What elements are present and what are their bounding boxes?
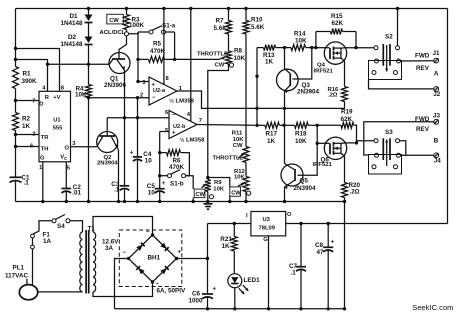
svg-text:O: O: [65, 145, 70, 151]
svg-text:C6: C6: [192, 291, 201, 298]
svg-text:CW: CW: [231, 191, 241, 197]
svg-text:A: A: [434, 70, 439, 77]
svg-text:+: +: [162, 181, 166, 187]
svg-text:S4: S4: [57, 223, 65, 230]
svg-text:½ LM358: ½ LM358: [169, 97, 195, 104]
svg-text:G: G: [263, 237, 268, 243]
svg-text:ACL/DCL: ACL/DCL: [100, 30, 126, 36]
svg-text:R17: R17: [266, 131, 278, 138]
svg-text:5.6K: 5.6K: [214, 25, 228, 32]
svg-text:~: ~: [156, 282, 160, 288]
svg-text:R1: R1: [23, 71, 32, 78]
svg-text:O: O: [287, 212, 292, 218]
svg-text:R9: R9: [214, 180, 222, 186]
svg-text:REV: REV: [416, 65, 430, 72]
svg-text:1A: 1A: [43, 238, 52, 245]
svg-text:390K: 390K: [22, 78, 38, 85]
svg-text:BH1: BH1: [148, 254, 161, 261]
svg-text:IRF521: IRF521: [314, 68, 334, 74]
svg-text:470K: 470K: [150, 48, 166, 55]
svg-text:CW: CW: [233, 143, 243, 149]
svg-text:G: G: [40, 156, 45, 162]
svg-text:LED1: LED1: [244, 277, 261, 284]
svg-text:2N3906: 2N3906: [104, 82, 127, 89]
svg-text:−: −: [152, 95, 156, 101]
svg-text:VC: VC: [60, 155, 67, 162]
svg-text:CW: CW: [195, 192, 205, 198]
svg-text:PL1: PL1: [13, 265, 25, 272]
svg-text:J4: J4: [434, 157, 442, 164]
svg-text:2N3904: 2N3904: [97, 160, 118, 166]
svg-text:Q5: Q5: [300, 178, 309, 185]
svg-text:D1: D1: [70, 13, 79, 20]
svg-text:78L09: 78L09: [259, 226, 276, 232]
svg-text:J2: J2: [433, 91, 441, 98]
svg-text:U2-a: U2-a: [153, 88, 166, 94]
svg-text:THROTTLE: THROTTLE: [213, 155, 244, 161]
svg-text:TR: TR: [41, 135, 50, 141]
svg-text:S1-b: S1-b: [170, 180, 184, 187]
svg-text:S3: S3: [385, 129, 393, 136]
svg-text:100K: 100K: [129, 22, 145, 29]
svg-text:2: 2: [140, 93, 143, 99]
svg-text:R7: R7: [216, 18, 225, 25]
svg-text:.1: .1: [114, 186, 120, 193]
svg-text:R10: R10: [251, 17, 263, 24]
svg-text:½ LM358: ½ LM358: [180, 137, 206, 144]
svg-text:10K: 10K: [234, 55, 246, 62]
svg-text:2N3904: 2N3904: [294, 185, 317, 192]
svg-text:10: 10: [148, 190, 156, 197]
svg-text:1N4148: 1N4148: [61, 41, 84, 48]
svg-text:D2: D2: [68, 34, 77, 41]
svg-text:2N3904: 2N3904: [297, 88, 320, 95]
svg-text:TH: TH: [41, 146, 49, 152]
svg-text:SeekIC.com: SeekIC.com: [412, 303, 453, 312]
svg-text:5.6K: 5.6K: [251, 24, 265, 31]
svg-text:S1-a: S1-a: [162, 22, 176, 29]
svg-text:117VAC: 117VAC: [5, 273, 28, 280]
svg-text:470K: 470K: [169, 164, 185, 171]
svg-text:R15: R15: [331, 13, 343, 20]
svg-text:10K: 10K: [234, 174, 246, 180]
svg-text:IRF521: IRF521: [313, 162, 333, 168]
svg-text:+: +: [178, 250, 182, 256]
svg-text:1K: 1K: [22, 123, 31, 130]
svg-text:47: 47: [317, 249, 325, 256]
svg-text:J1: J1: [433, 50, 441, 57]
svg-text:1K: 1K: [265, 59, 274, 66]
svg-text:THROTTLE: THROTTLE: [197, 52, 228, 58]
svg-text:62K: 62K: [332, 20, 344, 27]
svg-text:B: B: [434, 138, 439, 145]
svg-text:1K: 1K: [267, 138, 276, 145]
svg-text:REV: REV: [416, 126, 430, 133]
svg-text:10K: 10K: [295, 37, 307, 44]
svg-text:+: +: [130, 151, 134, 157]
svg-text:555: 555: [53, 126, 63, 132]
svg-text:10: 10: [145, 157, 153, 164]
svg-text:10K: 10K: [233, 137, 245, 143]
svg-text:FWD: FWD: [415, 116, 430, 123]
svg-text:1N4148: 1N4148: [61, 20, 84, 27]
svg-text:U2-b: U2-b: [173, 124, 186, 130]
svg-text:.2Ω: .2Ω: [350, 188, 360, 195]
svg-text:.2Ω: .2Ω: [328, 92, 338, 98]
svg-text:U3: U3: [263, 217, 271, 223]
svg-text:D: D: [39, 101, 43, 107]
svg-text:.01: .01: [72, 189, 81, 196]
svg-text:+: +: [331, 240, 335, 246]
svg-text:1K: 1K: [222, 243, 231, 250]
svg-text:S2: S2: [385, 34, 393, 41]
svg-text:1000: 1000: [189, 298, 204, 305]
svg-text:62K: 62K: [341, 116, 353, 123]
svg-text:+V: +V: [53, 95, 60, 101]
svg-text:.1: .1: [291, 270, 297, 277]
svg-text:7: 7: [32, 99, 35, 105]
svg-text:U1: U1: [53, 118, 61, 124]
svg-text:10K: 10K: [295, 138, 307, 145]
svg-text:10K: 10K: [213, 187, 225, 193]
svg-text:CW: CW: [109, 18, 119, 24]
svg-text:7: 7: [199, 118, 202, 124]
svg-text:10K: 10K: [75, 92, 87, 99]
svg-text:R11: R11: [232, 131, 243, 137]
svg-text:~: ~: [146, 230, 150, 236]
svg-text:J3: J3: [433, 112, 441, 119]
svg-text:R5: R5: [153, 41, 162, 48]
svg-text:R19: R19: [341, 109, 353, 116]
svg-text:T1: T1: [88, 225, 96, 232]
svg-text:CW: CW: [215, 63, 225, 69]
svg-text:+: +: [172, 130, 176, 136]
svg-text:−: −: [123, 250, 127, 256]
svg-text:R18: R18: [295, 131, 307, 138]
svg-text:R2: R2: [22, 116, 31, 123]
svg-text:.1: .1: [24, 180, 30, 187]
svg-text:−: −: [172, 113, 176, 119]
svg-text:FWD: FWD: [415, 53, 430, 60]
svg-text:3A: 3A: [105, 245, 114, 252]
svg-text:2: 2: [32, 131, 35, 137]
svg-text:+: +: [213, 287, 217, 293]
svg-text:6A, 50PIV: 6A, 50PIV: [157, 287, 187, 294]
svg-text:R8: R8: [234, 48, 243, 55]
svg-text:C8: C8: [315, 242, 324, 249]
